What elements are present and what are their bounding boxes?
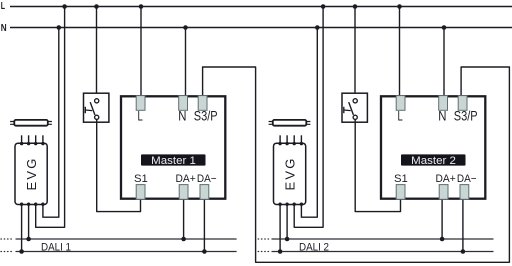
junction EVG1 pin2 / DALI upper [26, 237, 31, 242]
junction Master 1 DA+ / DALI upper [181, 237, 186, 242]
junction Master 2 DA- / DALI lower [461, 249, 466, 254]
svg-text:Master 2: Master 2 [411, 155, 456, 167]
terminal Master 2 DA- [460, 185, 469, 200]
terminal Master 2 N [439, 96, 448, 111]
terminal Master 2 L [396, 96, 405, 111]
EVG2 supply/DALI pin dots (bottom) [278, 203, 303, 206]
EVG2 lamp pins (top) [278, 135, 303, 145]
terminal Master 1 DA+ [179, 185, 188, 200]
wire L bus to switch S2 [354, 7, 356, 100]
wire EVG1 pin 4 to N bus [43, 28, 59, 218]
svg-text:S1: S1 [394, 173, 408, 185]
svg-text:N: N [1, 23, 7, 34]
junction L-bus / switch S1 feed [94, 4, 99, 9]
svg-text:S1: S1 [134, 173, 148, 185]
svg-text:EVG: EVG [282, 156, 297, 190]
wire Master 2 DA- to DALI lower [462, 199, 464, 252]
junction Master 1 DA- / DALI lower [202, 249, 207, 254]
wire EVG2 DA pin 1 to DALI lower [279, 204, 281, 251]
wire L bus to Master 2 L [399, 7, 401, 98]
terminal Master 1 DA- [200, 185, 209, 200]
svg-text:DA+: DA+ [436, 173, 456, 185]
wire N bus to Master 2 N [443, 28, 445, 98]
svg-text:L: L [138, 108, 143, 124]
terminal Master 2 S1 [396, 185, 405, 200]
junction L-bus / switch S2 feed [353, 4, 358, 9]
push-button switch S1 [84, 93, 109, 122]
svg-text:DA+: DA+ [176, 173, 196, 185]
svg-text:DALI 2: DALI 2 [299, 242, 329, 254]
junction L-bus / Master 2 L feed [397, 4, 402, 9]
svg-text:S3/P: S3/P [454, 108, 478, 124]
ballast EVG2 [274, 143, 306, 204]
svg-text:L: L [1, 1, 5, 12]
junction EVG1 pin1 / DALI lower [19, 249, 24, 254]
wire Master 2 DA+ to DALI upper [441, 199, 443, 240]
DALI gateway Master 1 [121, 96, 225, 198]
wire switch S2 to Master 2 S1 [355, 119, 400, 211]
terminal Master 1 S1 [136, 185, 145, 200]
svg-text:DALI 1: DALI 1 [41, 242, 71, 254]
junction Master 2 DA+ / DALI upper [440, 237, 445, 242]
wire Master 1 DA+ to DALI upper [183, 199, 185, 240]
label Master 1 [141, 154, 206, 167]
wire switch S1 to Master 1 S1 [97, 119, 141, 211]
net DALI 1 upper (DA+) [1, 238, 237, 240]
net DALI 2 lower (DA-) [258, 251, 493, 253]
terminal Master 1 S3/P [198, 96, 207, 111]
ballast EVG1 [15, 143, 47, 204]
lamp LA2 fluorescent tube [269, 120, 311, 126]
junction N-bus / EVG1 N feed [57, 25, 62, 30]
net L (phase bus) [1, 1, 512, 12]
terminal Master 1 N [179, 96, 188, 111]
pin labels Master 1 top: L N S3/P [138, 108, 218, 124]
wire EVG1 DA pin 1 to DALI lower [21, 204, 23, 251]
pin labels Master 2 top: L N S3/P [398, 108, 478, 124]
EVG1 supply/DALI pin dots (bottom) [20, 203, 45, 206]
wire Master 1 DA- to DALI lower [203, 199, 205, 252]
pin labels Master 2 bottom: S1 DA+ DA- [394, 173, 477, 185]
terminal Master 2 DA+ [439, 185, 448, 200]
svg-text:Master 1: Master 1 [151, 155, 196, 167]
net DALI 2 upper (DA+) [258, 238, 493, 240]
junction L-bus / EVG1 L feed [62, 4, 67, 9]
svg-text:N: N [438, 108, 446, 124]
wire EVG2 pin 4 to N bus [301, 28, 317, 218]
svg-text:EVG: EVG [24, 156, 39, 190]
wire L bus to switch S1 [96, 7, 98, 100]
junction N-bus / Master 1 N feed [183, 25, 188, 30]
wire N bus to Master 1 N [185, 28, 187, 98]
net DALI 1 lower (DA-) [1, 251, 237, 253]
terminal Master 1 L [136, 96, 145, 111]
wire Master 1 S3/P to Master 2 S3/P (routed loop) [203, 67, 510, 262]
junction L-bus / Master 1 L feed [139, 4, 144, 9]
junction EVG2 pin1 / DALI lower [278, 249, 283, 254]
wire EVG1 DA pin 2 to DALI upper [28, 204, 30, 239]
wire L bus to Master 1 L [140, 7, 142, 98]
net N (neutral bus) [1, 23, 512, 34]
svg-text:N: N [178, 108, 186, 124]
terminal Master 2 S3/P [458, 96, 467, 111]
lamp LA1 fluorescent tube [10, 120, 52, 126]
wire EVG2 DA pin 2 to DALI upper [286, 204, 288, 239]
junction N-bus / Master 2 N feed [442, 25, 447, 30]
EVG1 lamp pins (top) [20, 135, 45, 145]
DALI gateway Master 2 [381, 96, 485, 198]
svg-text:S3/P: S3/P [194, 108, 218, 124]
svg-text:L: L [398, 108, 403, 124]
svg-text:DA−: DA− [457, 173, 477, 185]
push-button switch S2 [342, 93, 367, 122]
wire EVG1 pin 3 to L bus [36, 7, 65, 228]
junction N-bus / EVG2 N feed [315, 25, 320, 30]
pin labels Master 1 bottom: S1 DA+ DA- [134, 173, 217, 185]
svg-text:DA−: DA− [197, 173, 217, 185]
label Master 2 [401, 154, 466, 167]
wire EVG2 pin 3 to L bus [294, 7, 323, 228]
junction L-bus / EVG2 L feed [321, 4, 326, 9]
junction EVG2 pin2 / DALI upper [285, 237, 290, 242]
